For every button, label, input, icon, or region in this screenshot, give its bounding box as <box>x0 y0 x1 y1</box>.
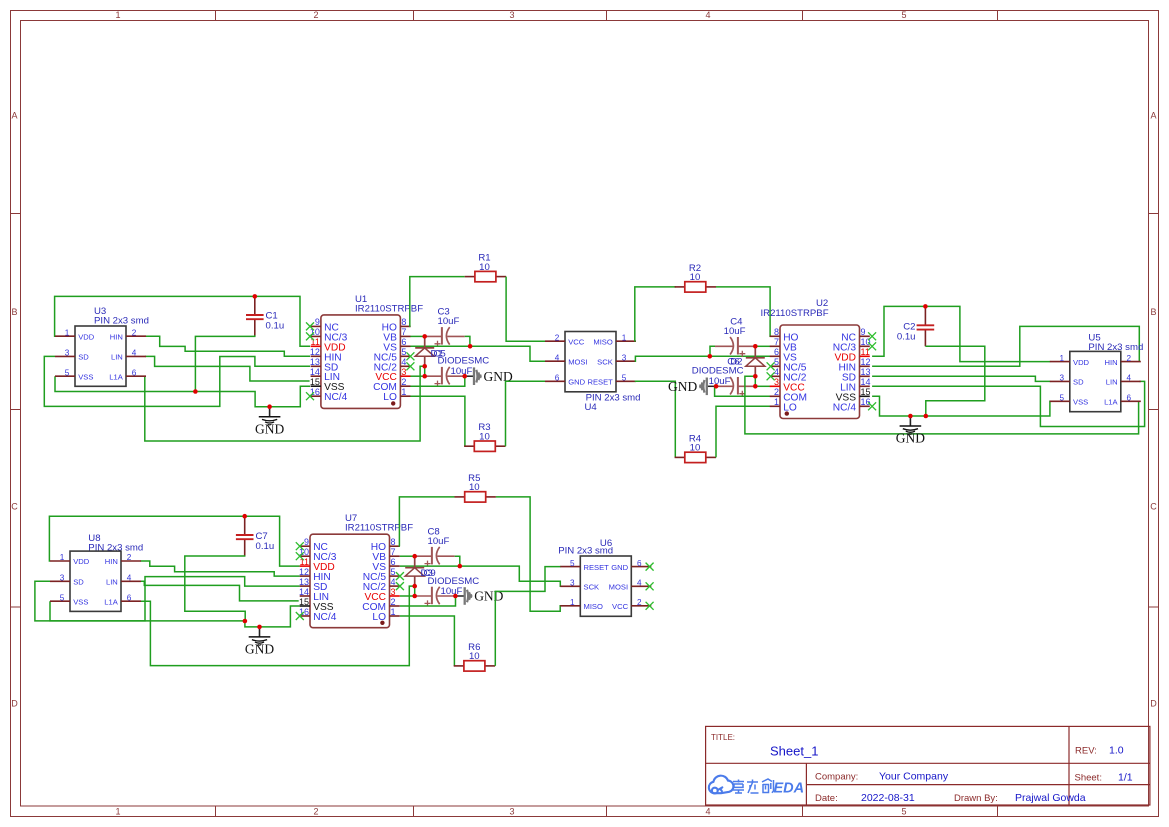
U7 pin 11 (VDD) <box>300 565 310 567</box>
resistor R5 body <box>465 492 486 502</box>
U2 pin 10 (NC/3) <box>860 345 870 347</box>
svg-text:0.1u: 0.1u <box>266 321 285 332</box>
wire U2.HIN(12) over U5 to U5.HIN(2) <box>872 326 1139 366</box>
svg-text:L1A: L1A <box>109 372 123 381</box>
svg-text:3: 3 <box>509 10 514 20</box>
U2 pin 16 (NC/4) <box>860 405 870 407</box>
U2 pin 15 (VSS) <box>860 395 870 397</box>
ground net flag GND (right) <box>909 416 911 426</box>
U2 pin1 orientation dot <box>785 411 789 415</box>
no-connect X on U1 pins 9,10,16 <box>306 322 314 330</box>
svg-text:GND: GND <box>896 431 925 446</box>
U1 pin 8 (HO) <box>400 325 410 327</box>
svg-text:Prajwal Gowda: Prajwal Gowda <box>1015 792 1086 804</box>
svg-text:2: 2 <box>313 807 318 817</box>
wire U2.VDD(11) to VDD rail to U5.VDD(1) <box>872 306 1050 361</box>
U3 pin 5 (VSS) <box>55 375 75 377</box>
svg-text:DIODESMC: DIODESMC <box>438 356 490 367</box>
connector U8 box <box>70 551 121 611</box>
no-connect X on U2 pins 9,10,16 <box>868 332 876 340</box>
svg-text:1: 1 <box>570 598 575 607</box>
U1 pin 11 (VDD) <box>311 345 321 347</box>
svg-text:7: 7 <box>774 337 779 347</box>
svg-text:10uF: 10uF <box>724 326 746 337</box>
U3 pin 4 (LIN) <box>126 355 146 357</box>
resistor R3 leads <box>464 445 474 447</box>
U4 pin 2 (VCC) <box>545 340 565 342</box>
svg-text:2: 2 <box>401 377 406 387</box>
ground net flag GND (at C6) <box>707 385 716 387</box>
svg-text:NC/4: NC/4 <box>313 612 337 623</box>
svg-text:5: 5 <box>901 807 906 817</box>
connector U5 box <box>1070 351 1121 411</box>
svg-text:U4: U4 <box>585 402 598 413</box>
svg-text:Date:: Date: <box>815 793 838 804</box>
U6 pin 3 (SCK) <box>560 585 580 587</box>
capacitor C8 10uF (bootstrap) <box>415 555 432 557</box>
svg-text:VDD: VDD <box>73 557 90 566</box>
wire U7.VCC(3) to C9 <box>400 595 415 597</box>
wire U3.SD to U1.SD(13) <box>44 356 310 406</box>
svg-text:2: 2 <box>637 598 642 607</box>
U5 pin 6 (L1A) <box>1121 400 1141 402</box>
capacitor C3 10uF (bootstrap) <box>425 335 442 337</box>
svg-text:3: 3 <box>391 587 396 597</box>
svg-text:6: 6 <box>1127 394 1132 403</box>
U4 pin 6 (GND) <box>545 380 565 382</box>
svg-text:HIN: HIN <box>110 332 123 341</box>
svg-text:3: 3 <box>401 367 406 377</box>
U8 pin 1 (VDD) <box>50 560 70 562</box>
U7 pin 15 (VSS) <box>300 605 310 607</box>
wire C2 bottom to GND rail <box>925 346 984 416</box>
capacitor C2 leads <box>924 306 926 325</box>
svg-text:2: 2 <box>132 328 137 337</box>
svg-text:D: D <box>11 699 18 709</box>
wire U2.VB(7) to C4 junction <box>755 345 770 347</box>
svg-text:1: 1 <box>60 553 65 562</box>
U8 pin 4 (LIN) <box>121 580 141 582</box>
svg-text:GND: GND <box>568 378 585 387</box>
svg-text:5: 5 <box>901 10 906 20</box>
wire C3 right down to VS line <box>465 336 470 346</box>
U2 pin 11 (VDD) <box>860 355 870 357</box>
svg-text:1: 1 <box>774 397 779 407</box>
no-connect X on U6 pins 6,4,2 <box>646 563 654 571</box>
svg-text:IR2110STRPBF: IR2110STRPBF <box>761 308 829 319</box>
wire U1.HO(8) up to R1 <box>410 277 465 327</box>
svg-text:RESET: RESET <box>584 563 610 572</box>
wire U1.VB(7) to C3 junction <box>410 335 424 337</box>
U7 pin 9 (NC) <box>300 545 310 547</box>
svg-text:10: 10 <box>479 262 490 273</box>
connector U6 box <box>580 556 631 616</box>
svg-text:13: 13 <box>861 367 871 377</box>
U1 pin 6 (VS) <box>400 345 410 347</box>
wire U2.COM(2) to GND junction <box>715 386 771 396</box>
U1 pin 1 (LO) <box>400 395 410 397</box>
ground net flag GND (at C9) <box>455 595 464 597</box>
U1 pin 7 (VB) <box>400 335 410 337</box>
svg-text:Company:: Company: <box>815 772 858 783</box>
diode D1 DIODESMC (bootstrap) <box>424 336 426 348</box>
svg-text:LO: LO <box>783 402 797 413</box>
resistor R5 leads <box>455 496 465 498</box>
U1 pin1 orientation dot <box>391 401 395 405</box>
ground net flag GND (at C5) <box>465 375 474 377</box>
wire U1.LO(1) to R3 <box>410 396 465 446</box>
wire R5 right to U6.MISO(1) <box>496 497 561 611</box>
wire U2.LIN(14) to U5.LIN(4) <box>872 381 1145 426</box>
svg-text:10uF: 10uF <box>438 316 460 327</box>
svg-text:TITLE:: TITLE: <box>711 733 735 742</box>
svg-text:3: 3 <box>1060 374 1065 383</box>
wire U3.VDD to VDD rail to U1.VDD(11) <box>55 296 310 346</box>
svg-text:6: 6 <box>127 593 132 602</box>
svg-text:DIODESMC: DIODESMC <box>692 365 744 376</box>
svg-text:SD: SD <box>78 353 89 362</box>
svg-text:6: 6 <box>401 337 406 347</box>
wire U7.VS(6) to U6.SCK(3) <box>400 566 561 586</box>
svg-text:C: C <box>1150 502 1157 512</box>
wire R2 right down to U2.HO(8) <box>716 287 780 336</box>
wire U2 bootstrap rail to U5.L1A <box>745 376 1139 434</box>
svg-text:2: 2 <box>555 333 560 342</box>
U1 pin 9 (NC) <box>311 325 321 327</box>
svg-text:GND: GND <box>255 421 284 436</box>
capacitor C7 leads <box>244 516 246 535</box>
svg-text:4: 4 <box>774 367 779 377</box>
svg-text:B: B <box>1150 307 1156 317</box>
U4 pin 4 (MOSI) <box>545 360 565 362</box>
svg-text:3: 3 <box>509 807 514 817</box>
U7 pin 4 (NC/2) <box>390 585 400 587</box>
svg-text:8: 8 <box>391 537 396 547</box>
U7 pin 14 (LIN) <box>300 595 310 597</box>
svg-text:4: 4 <box>391 577 396 587</box>
svg-text:D: D <box>1150 699 1157 709</box>
svg-text:GND: GND <box>245 642 274 657</box>
svg-text:GND: GND <box>668 379 697 394</box>
svg-text:1: 1 <box>115 10 120 20</box>
svg-text:VCC: VCC <box>568 337 585 346</box>
wire U1.COM(2) to GND junction <box>410 376 464 386</box>
svg-text:10: 10 <box>479 431 490 442</box>
wire D2 anode to VCC junction <box>754 376 756 386</box>
svg-text:2: 2 <box>391 597 396 607</box>
svg-text:4: 4 <box>132 349 137 358</box>
U2 pin 5 (NC/5) <box>770 365 780 367</box>
svg-text:VDD: VDD <box>1073 358 1090 367</box>
wire D3 anode to VCC junction <box>414 586 416 596</box>
resistor R3 body <box>474 441 495 451</box>
U7 pin 10 (NC/3) <box>300 555 310 557</box>
U3 pin 6 (L1A) <box>126 375 146 377</box>
ground net flag GND (left) <box>269 407 271 417</box>
wire U2.SD(13) to U5.SD(3) <box>872 376 1050 381</box>
svg-text:1: 1 <box>622 333 627 342</box>
svg-text:EDA: EDA <box>774 781 805 797</box>
wire U4.RESET(5) to R4 <box>635 381 676 457</box>
svg-text:MOSI: MOSI <box>609 583 628 592</box>
U7 pin 1 (LO) <box>390 615 400 617</box>
U7 pin 6 (VS) <box>390 565 400 567</box>
svg-text:5: 5 <box>622 374 627 383</box>
svg-text:8: 8 <box>401 317 406 327</box>
svg-text:10: 10 <box>469 482 480 493</box>
svg-text:C: C <box>11 502 18 512</box>
svg-text:5: 5 <box>60 593 65 602</box>
svg-text:L1A: L1A <box>1104 398 1118 407</box>
svg-text:4: 4 <box>401 357 406 367</box>
wire U2.VSS(15) to GND rail to U5.VSS(5) <box>872 396 1050 416</box>
U5 pin 5 (VSS) <box>1050 400 1070 402</box>
op-amp driver IC U1 body <box>321 315 401 409</box>
U2 pin 3 (VCC) <box>770 385 780 387</box>
wire U8.HIN to U7.HIN(12) <box>140 561 299 576</box>
U3 pin 1 (VDD) <box>55 335 75 337</box>
svg-text:RESET: RESET <box>587 378 613 387</box>
U6 pin 1 (MISO) <box>560 605 580 607</box>
svg-text:16: 16 <box>861 397 871 407</box>
svg-text:VCC: VCC <box>612 602 629 611</box>
resistor R4 body <box>685 452 706 462</box>
U1 pin 15 (VSS) <box>311 385 321 387</box>
U1 pin 10 (NC/3) <box>311 335 321 337</box>
U1 pin 16 (NC/4) <box>311 395 321 397</box>
U1 pin 4 (NC/2) <box>400 365 410 367</box>
U1 pin 13 (SD) <box>311 365 321 367</box>
svg-text:NC/4: NC/4 <box>833 402 857 413</box>
op-amp driver IC U2 body <box>780 325 860 419</box>
capacitor C4 10uF (bootstrap) <box>738 345 755 347</box>
wire U4.MISO(1) to R2 <box>635 287 676 341</box>
wire U8.SD to U7.SD(13) <box>35 577 300 621</box>
U2 pin 8 (HO) <box>770 335 780 337</box>
capacitor C2 plates <box>917 324 935 326</box>
op-amp driver IC U7 body <box>310 534 390 628</box>
resistor R2 leads <box>675 286 685 288</box>
svg-text:A: A <box>11 111 17 121</box>
svg-text:REV:: REV: <box>1075 746 1097 757</box>
wire U3.L1A to U1 bootstrap rail <box>145 366 425 441</box>
wire U3.LIN toward U1.LIN (stub) <box>145 356 309 381</box>
title block frame <box>706 726 1150 805</box>
U2 pin 7 (VB) <box>770 345 780 347</box>
svg-text:VSS: VSS <box>73 597 88 606</box>
svg-text:L1A: L1A <box>104 597 118 606</box>
capacitor C5 10uF (decoupling) <box>425 375 442 377</box>
svg-text:SCK: SCK <box>584 583 600 592</box>
wire R3 right up to U4.GND(6) <box>506 381 546 446</box>
wire R4 right up to U2.LO(1) <box>716 406 771 457</box>
no-connect X on U7 pins 5,4 <box>396 572 404 580</box>
svg-text:LO: LO <box>383 392 397 403</box>
resistor R2 body <box>685 282 706 292</box>
wire D1 anode to VCC junction <box>424 366 426 376</box>
svg-text:5: 5 <box>1060 394 1065 403</box>
capacitor C1 leads <box>254 296 256 315</box>
wire U7.LO(1) to R6 <box>400 616 455 666</box>
U2 pin 9 (NC) <box>860 335 870 337</box>
svg-text:10uF: 10uF <box>428 536 450 547</box>
wire C1 bottom to VSS rail <box>195 335 254 391</box>
svg-text:1: 1 <box>65 328 70 337</box>
svg-text:12: 12 <box>310 347 320 357</box>
svg-text:3: 3 <box>622 353 627 362</box>
svg-text:4: 4 <box>705 807 710 817</box>
svg-text:LIN: LIN <box>111 353 123 362</box>
U2 pin 2 (COM) <box>770 395 780 397</box>
svg-text:SCK: SCK <box>597 357 613 366</box>
wire U7.COM(2) to GND junction <box>400 596 456 606</box>
svg-text:3: 3 <box>774 377 779 387</box>
svg-text:3: 3 <box>65 349 70 358</box>
diode D2 DIODESMC (bootstrap) <box>754 346 756 358</box>
wire U1.VCC(3) to C5 <box>410 375 424 377</box>
svg-text:6: 6 <box>637 559 642 568</box>
U4 pin 1 (MISO) <box>616 340 636 342</box>
wire U2.VCC(3) to C6 <box>755 385 770 387</box>
no-connect X on U2 pins 5,4 <box>767 362 775 370</box>
svg-text:MOSI: MOSI <box>568 357 587 366</box>
svg-text:15: 15 <box>861 387 871 397</box>
U5 pin 4 (LIN) <box>1121 380 1141 382</box>
svg-text:Your Company: Your Company <box>879 771 949 783</box>
EDA logo cloud <box>709 776 734 794</box>
svg-text:6: 6 <box>132 368 137 377</box>
U1 pin 3 (VCC) <box>400 375 410 377</box>
EDA logo CJK text strokes <box>733 779 774 793</box>
U7 pin 8 (HO) <box>390 545 400 547</box>
wire C7 bottom to VSS rail <box>185 555 245 621</box>
svg-text:2: 2 <box>127 553 132 562</box>
svg-text:12: 12 <box>299 567 309 577</box>
U7 pin 13 (SD) <box>300 585 310 587</box>
svg-text:11: 11 <box>861 347 870 357</box>
U4 pin 3 (SCK) <box>616 360 636 362</box>
svg-text:2022-08-31: 2022-08-31 <box>861 792 915 804</box>
U7 pin 7 (VB) <box>390 555 400 557</box>
wire U8.LIN toward U7.LIN (stub) <box>140 581 298 601</box>
svg-text:A: A <box>1150 111 1156 121</box>
resistor R6 leads <box>454 665 464 667</box>
svg-text:LIN: LIN <box>1106 378 1118 387</box>
no-connect X on U7 pins 9,10,16 <box>296 542 304 550</box>
U2 pin 14 (LIN) <box>860 385 870 387</box>
svg-text:1.0: 1.0 <box>1109 745 1124 757</box>
wire U3.VSS to GND rail to U1.VSS(15) <box>55 376 310 407</box>
U3 pin 2 (HIN) <box>126 335 146 337</box>
U4 pin 5 (RESET) <box>616 380 636 382</box>
svg-text:5: 5 <box>391 567 396 577</box>
svg-text:5: 5 <box>570 559 575 568</box>
svg-text:SD: SD <box>1073 378 1084 387</box>
svg-text:1: 1 <box>1060 354 1065 363</box>
svg-text:1/1: 1/1 <box>1118 772 1133 784</box>
svg-text:0.1u: 0.1u <box>897 332 916 343</box>
svg-text:14: 14 <box>299 587 309 597</box>
svg-text:MISO: MISO <box>593 337 613 346</box>
svg-text:6: 6 <box>391 557 396 567</box>
svg-text:12: 12 <box>861 357 871 367</box>
wire C4 left down to U2 VS line <box>710 346 715 356</box>
resistor R4 leads <box>675 456 685 458</box>
svg-text:Drawn By:: Drawn By: <box>954 793 998 804</box>
resistor R1 leads <box>465 276 475 278</box>
U8 pin 6 (L1A) <box>121 600 141 602</box>
svg-text:14: 14 <box>861 377 871 387</box>
U2 pin 6 (VS) <box>770 355 780 357</box>
svg-text:4: 4 <box>637 579 642 588</box>
U6 pin 4 (MOSI) <box>631 585 651 587</box>
svg-text:IR2110STRPBF: IR2110STRPBF <box>345 523 413 534</box>
svg-text:4: 4 <box>1127 374 1132 383</box>
svg-text:VDD: VDD <box>78 332 95 341</box>
svg-text:SD: SD <box>73 578 84 587</box>
connector U4 box <box>565 332 616 392</box>
svg-text:10: 10 <box>690 443 701 454</box>
U1 pin 14 (LIN) <box>311 375 321 377</box>
svg-text:2: 2 <box>1127 354 1132 363</box>
svg-text:IR2110STRPBF: IR2110STRPBF <box>355 303 423 314</box>
svg-text:13: 13 <box>299 577 309 587</box>
capacitor C1 plates <box>246 314 264 316</box>
U5 pin 2 (HIN) <box>1121 361 1141 363</box>
svg-text:6: 6 <box>555 374 560 383</box>
wire U1.VS(6) to U4.MOSI(4) <box>410 346 545 361</box>
wire U4.SCK(3) to U2 VS line <box>635 356 771 361</box>
U7 pin 2 (COM) <box>390 605 400 607</box>
svg-text:1: 1 <box>115 807 120 817</box>
svg-text:LIN: LIN <box>106 578 118 587</box>
U2 pin 4 (NC/2) <box>770 375 780 377</box>
U2 pin 12 (HIN) <box>860 365 870 367</box>
wire U8.VSS to GND rail to U7.VSS(15) <box>50 601 300 627</box>
resistor R6 body <box>464 661 485 671</box>
svg-text:5: 5 <box>65 368 70 377</box>
capacitor C6 10uF (decoupling) <box>738 385 755 387</box>
svg-text:10: 10 <box>469 651 480 662</box>
svg-text:6: 6 <box>774 347 779 357</box>
svg-text:15: 15 <box>310 377 320 387</box>
no-connect X on U1 pins 5,4 <box>406 352 414 360</box>
wire U7.VB(7) to C8 junction <box>400 555 415 557</box>
connector U3 box <box>75 326 126 386</box>
svg-text:MISO: MISO <box>584 602 604 611</box>
diode D3 DIODESMC (bootstrap) <box>414 556 416 568</box>
U5 pin 3 (SD) <box>1050 380 1070 382</box>
wire C8 right down to VS line <box>455 556 460 566</box>
U3 pin 3 (SD) <box>55 355 75 357</box>
U7 pin 3 (VCC) <box>390 595 400 597</box>
wire U8.VDD to VDD rail to U7.VDD(11) <box>49 516 299 566</box>
U7 pin 16 (NC/4) <box>300 615 310 617</box>
svg-text:2: 2 <box>313 10 318 20</box>
U8 pin 3 (SD) <box>50 580 70 582</box>
svg-text:Sheet:: Sheet: <box>1075 773 1102 784</box>
svg-text:5: 5 <box>774 357 779 367</box>
svg-text:VSS: VSS <box>1073 398 1088 407</box>
svg-text:9: 9 <box>315 317 320 327</box>
svg-text:HIN: HIN <box>1105 358 1118 367</box>
svg-text:13: 13 <box>310 357 320 367</box>
wire U8.L1A to U7 bootstrap rail <box>140 586 414 666</box>
wire U7.HO(8) up to R5 <box>399 497 454 546</box>
svg-text:B: B <box>11 307 17 317</box>
U6 pin 6 (GND) <box>631 566 651 568</box>
svg-text:10: 10 <box>690 272 701 283</box>
